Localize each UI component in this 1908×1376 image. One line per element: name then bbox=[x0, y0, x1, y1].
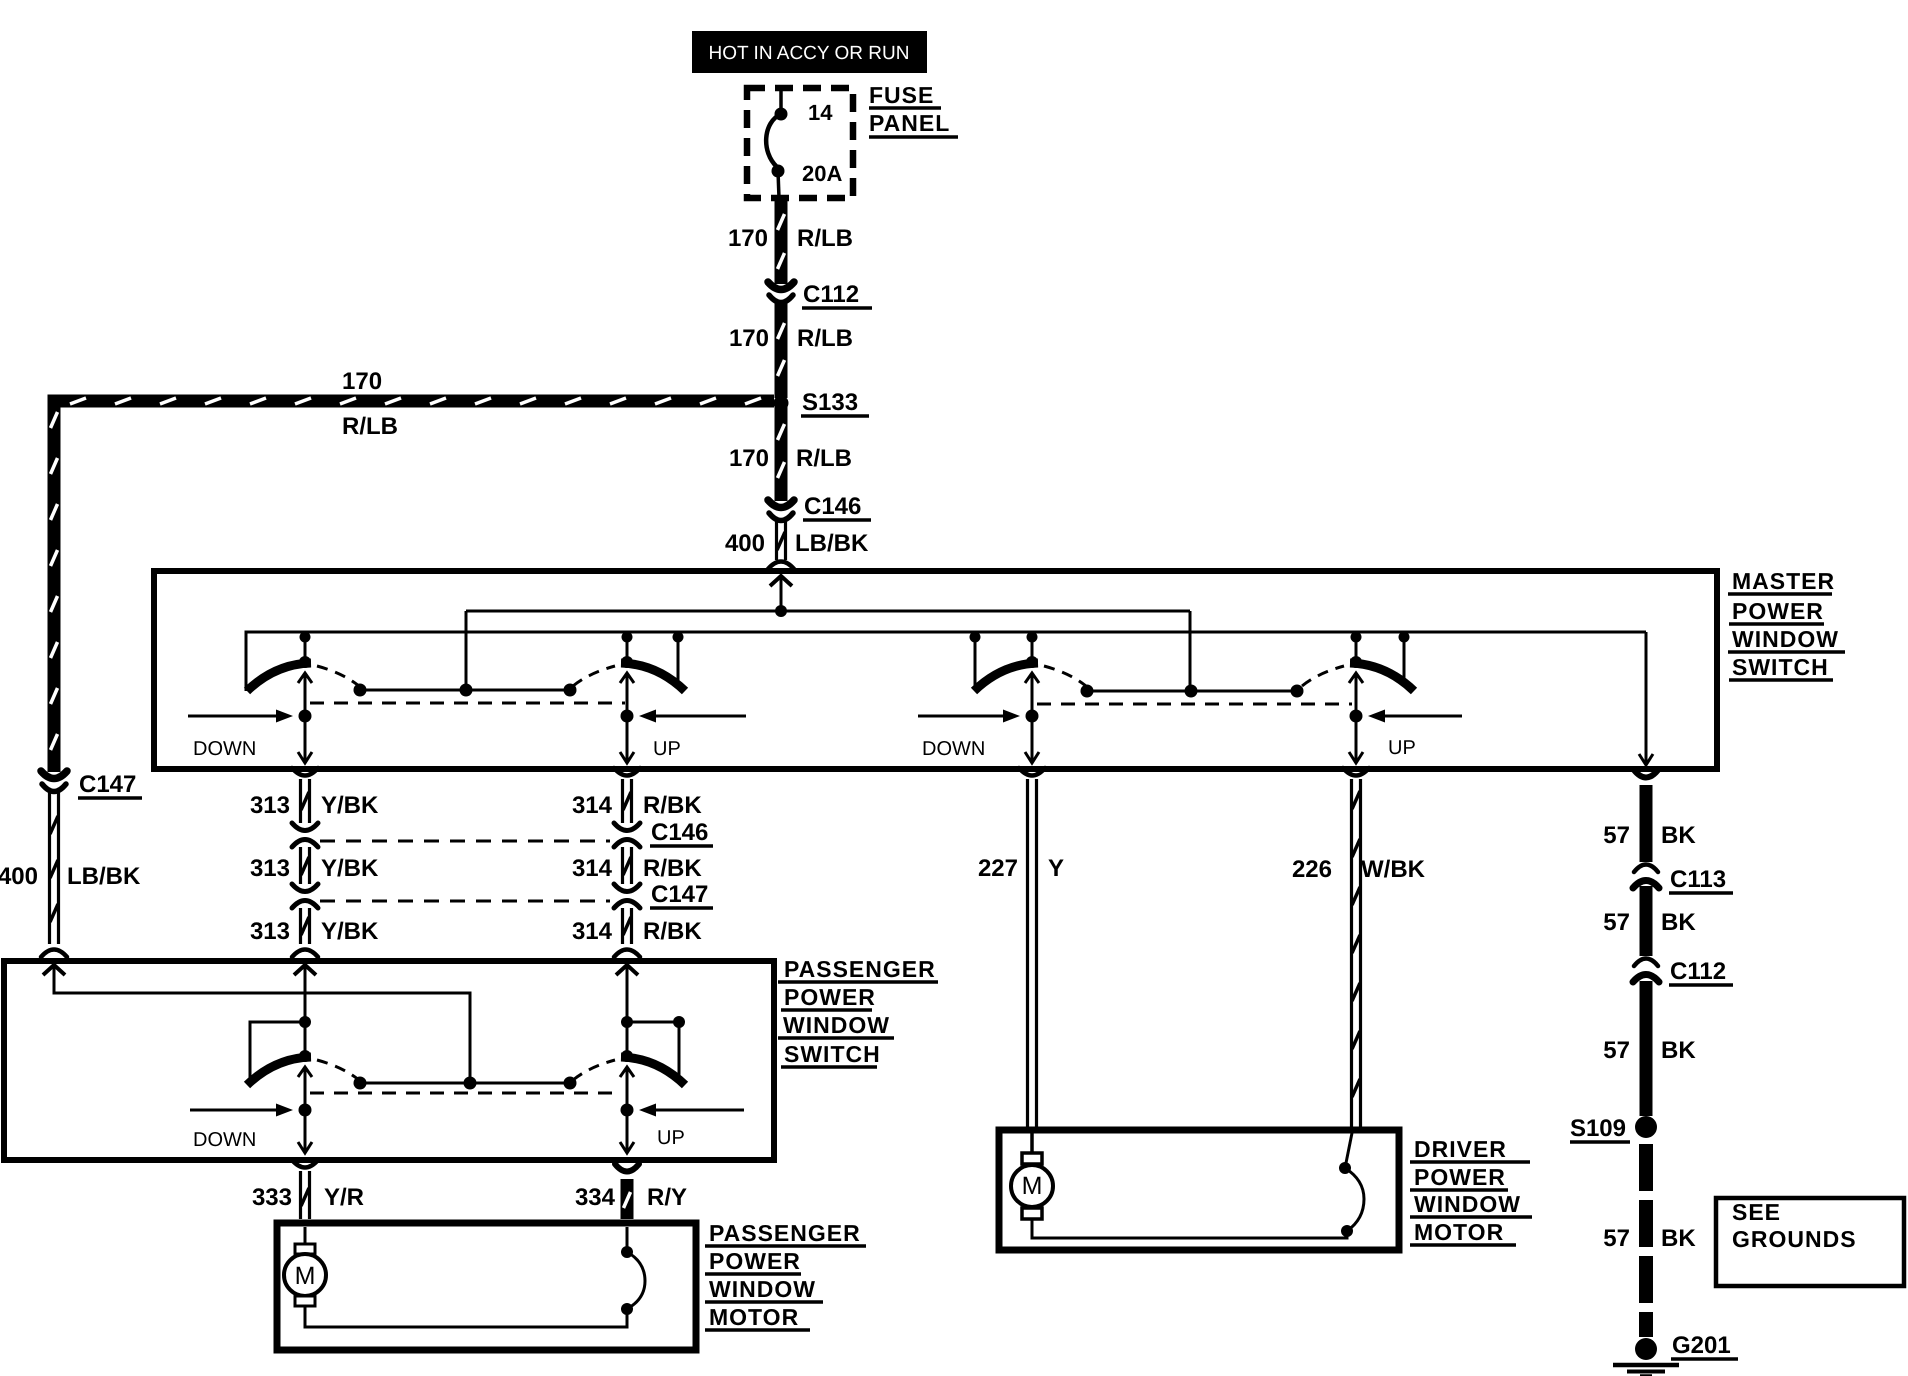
wiper arm arrow (passenger window up) bbox=[620, 673, 634, 723]
wire 57 BK segment 2 bbox=[1640, 886, 1653, 956]
wiper pivot drop (passenger window down) bbox=[300, 632, 311, 663]
wire 170 R/LB (C112 to S133) bbox=[778, 303, 785, 398]
entry arrow wire 314 bbox=[616, 965, 638, 1028]
svg-text:DOWN: DOWN bbox=[193, 738, 256, 760]
svg-text:C146: C146 bbox=[804, 493, 861, 520]
wire label 400 LB/BK bbox=[725, 530, 869, 557]
ground G201 bbox=[1613, 1338, 1679, 1376]
svg-text:57: 57 bbox=[1603, 909, 1630, 936]
splice S109 bbox=[1635, 1116, 1657, 1138]
svg-text:S109: S109 bbox=[1570, 1115, 1626, 1142]
svg-text:313: 313 bbox=[250, 792, 290, 819]
label C147 bbox=[78, 771, 142, 798]
connector bell, wire 314 enters passenger switch bbox=[614, 950, 640, 958]
svg-text:57: 57 bbox=[1603, 822, 1630, 849]
connector C147 on wire 313 bbox=[292, 884, 318, 908]
output arrow (passenger window up) bbox=[620, 716, 634, 763]
bus drop to contact (driver window down) bbox=[970, 632, 981, 688]
passenger power window switch box bbox=[4, 961, 774, 1160]
feed entry arrow into master switch bbox=[770, 576, 792, 611]
svg-text:227: 227 bbox=[978, 855, 1018, 882]
wiper pivot drop (driver window up) bbox=[1351, 632, 1362, 663]
node contact link (passenger switch) bbox=[354, 1077, 577, 1090]
node lower bus (battery bus) bbox=[246, 632, 1646, 691]
ground output of master switch bbox=[1639, 632, 1653, 765]
connector C146 on wire 314 bbox=[614, 823, 640, 847]
svg-text:DOWN: DOWN bbox=[193, 1129, 256, 1151]
svg-text:UP: UP bbox=[653, 738, 681, 760]
label G201 bbox=[1671, 1332, 1738, 1359]
wire 313 Y/BK segment 3 bbox=[301, 908, 310, 944]
svg-text:C147: C147 bbox=[651, 881, 708, 908]
connector C112 (inline, top) bbox=[768, 282, 794, 303]
wire label 170 R/LB bbox=[728, 225, 853, 252]
svg-text:POWER: POWER bbox=[784, 984, 876, 1010]
connector bell, wire 313 enters passenger switch bbox=[292, 950, 318, 958]
wire 170 R/LB (S133 to C146) bbox=[778, 403, 785, 501]
wire label R/LB (horizontal) bbox=[342, 413, 398, 440]
wire 334 R/Y bbox=[624, 1179, 631, 1219]
wiper arm arrow (passenger sw up) bbox=[620, 1067, 634, 1117]
svg-text:20A: 20A bbox=[802, 161, 842, 186]
svg-text:MASTER: MASTER bbox=[1732, 568, 1835, 594]
svg-text:170: 170 bbox=[342, 368, 382, 395]
connector C113 (inline) bbox=[1633, 865, 1659, 889]
mechanical linkage (passenger sw rocker) bbox=[310, 1092, 622, 1095]
wire label 314 R/BK bbox=[572, 918, 702, 945]
svg-text:14: 14 bbox=[808, 100, 833, 125]
wire 57 BK dashed (to grounds) bbox=[1639, 1144, 1653, 1337]
svg-text:FUSE: FUSE bbox=[869, 82, 934, 108]
wire label 170 R/LB bbox=[729, 325, 853, 352]
limit switch (passenger motor) bbox=[621, 1227, 645, 1315]
node contact link (driver pair) bbox=[1081, 685, 1304, 698]
svg-text:G201: G201 bbox=[1672, 1332, 1731, 1359]
motor internal wire to limit switch (driver) bbox=[1032, 1219, 1347, 1238]
svg-text:Y/BK: Y/BK bbox=[321, 918, 379, 945]
wire label 314 R/BK bbox=[572, 792, 702, 819]
wire label 226 W/BK bbox=[1292, 856, 1426, 883]
svg-text:R/BK: R/BK bbox=[643, 918, 702, 945]
label UP bbox=[653, 738, 681, 760]
see grounds note box bbox=[1716, 1198, 1904, 1286]
wire label 313 Y/BK bbox=[250, 792, 379, 819]
wire 313 Y/BK segment 1 bbox=[301, 779, 310, 823]
svg-text:SWITCH: SWITCH bbox=[784, 1041, 881, 1067]
wire 170 R/LB (fuse to C112) bbox=[778, 198, 785, 284]
connector bell, wire 227 leaves master switch bbox=[1019, 768, 1045, 776]
wire 400 LB/BK (C147 to passenger switch) bbox=[50, 792, 59, 944]
actuation arrow passenger window up bbox=[639, 710, 746, 723]
feed entry arrow (400) into passenger switch bbox=[43, 965, 470, 1083]
connector bell, wire 313 leaves master switch bbox=[292, 768, 318, 776]
svg-text:DRIVER: DRIVER bbox=[1414, 1136, 1507, 1162]
connector C112 (inline, right) bbox=[1633, 959, 1659, 983]
wire 333 Y/R bbox=[301, 1171, 310, 1219]
wiper arm arrow (passenger sw down) bbox=[298, 1067, 312, 1117]
fuse pin label 14 bbox=[808, 100, 833, 125]
limit switch (driver motor) bbox=[1339, 1133, 1364, 1237]
svg-text:314: 314 bbox=[572, 792, 613, 819]
wire label 334 R/Y bbox=[575, 1184, 687, 1211]
svg-text:WINDOW: WINDOW bbox=[709, 1276, 816, 1302]
svg-text:MOTOR: MOTOR bbox=[1414, 1219, 1504, 1245]
svg-text:WINDOW: WINDOW bbox=[1414, 1191, 1521, 1217]
svg-text:R/LB: R/LB bbox=[797, 325, 853, 352]
svg-text:314: 314 bbox=[572, 855, 613, 882]
switch wiper (passenger window up) bbox=[573, 656, 685, 691]
svg-text:M: M bbox=[295, 1262, 316, 1290]
actuation arrow passenger sw down bbox=[190, 1104, 293, 1117]
switch wiper (driver window down) bbox=[974, 656, 1086, 691]
wiper pivot drop (passenger window up) bbox=[622, 632, 633, 663]
svg-text:LB/BK: LB/BK bbox=[795, 530, 869, 557]
svg-text:R/BK: R/BK bbox=[643, 855, 702, 882]
svg-text:170: 170 bbox=[729, 325, 769, 352]
label PASSENGER POWER WINDOW SWITCH bbox=[778, 956, 938, 1067]
wire 57 BK segment 1 bbox=[1640, 785, 1653, 862]
wire label 313 Y/BK bbox=[250, 855, 379, 882]
connector C147 (inline, left wire) bbox=[41, 771, 67, 792]
svg-text:314: 314 bbox=[572, 918, 613, 945]
label C147 bbox=[650, 881, 713, 908]
svg-text:BK: BK bbox=[1661, 1225, 1696, 1252]
svg-text:C146: C146 bbox=[651, 819, 708, 846]
wire 400 LB/BK (C146 to master switch) bbox=[777, 521, 786, 560]
svg-text:R/LB: R/LB bbox=[797, 225, 853, 252]
svg-text:MOTOR: MOTOR bbox=[709, 1304, 799, 1330]
label DRIVER POWER WINDOW MOTOR bbox=[1410, 1136, 1532, 1245]
svg-text:SEE: SEE bbox=[1732, 1199, 1781, 1225]
actuation arrow passenger window down bbox=[188, 710, 293, 723]
wire label 170 (horizontal) bbox=[342, 368, 382, 395]
label C112 bbox=[1669, 958, 1733, 985]
svg-text:57: 57 bbox=[1603, 1037, 1630, 1064]
svg-text:334: 334 bbox=[575, 1184, 616, 1211]
wiper pivot drop (driver window down) bbox=[1027, 632, 1038, 663]
svg-text:226: 226 bbox=[1292, 856, 1332, 883]
motor M1 (passenger window motor) bbox=[284, 1227, 326, 1306]
svg-text:BK: BK bbox=[1661, 1037, 1696, 1064]
mechanical linkage (driver rocker) bbox=[1037, 703, 1352, 706]
output arrow (driver window up) bbox=[1349, 716, 1363, 763]
label C113 bbox=[1669, 866, 1733, 893]
svg-text:UP: UP bbox=[657, 1127, 685, 1149]
svg-text:HOT IN ACCY OR RUN: HOT IN ACCY OR RUN bbox=[709, 43, 910, 64]
svg-text:PASSENGER: PASSENGER bbox=[709, 1220, 861, 1246]
connector bell, wire 57 leaves master switch bbox=[1634, 770, 1658, 778]
output arrow (passenger sw down) bbox=[298, 1110, 312, 1153]
mechanical linkage (passenger rocker) bbox=[310, 702, 625, 705]
label MASTER POWER WINDOW SWITCH bbox=[1728, 568, 1845, 680]
svg-text:313: 313 bbox=[250, 855, 290, 882]
wire 314 R/BK segment 1 bbox=[623, 779, 632, 823]
connector C146 on wire 313 bbox=[292, 823, 318, 847]
connector bell, wire 333 leaves passenger switch bbox=[292, 1160, 318, 1168]
wire label 313 Y/BK bbox=[250, 918, 379, 945]
connector C146 (inline, top) bbox=[768, 500, 794, 521]
svg-text:C112: C112 bbox=[1670, 958, 1726, 985]
bus drop to contact (driver window up) bbox=[1399, 632, 1410, 688]
connector C147 dashed tie line bbox=[320, 900, 610, 903]
master power window switch box bbox=[154, 571, 1717, 769]
connector bell, wire 334 leaves passenger switch bbox=[615, 1164, 639, 1172]
switch wiper (passenger sw up) bbox=[573, 1050, 685, 1085]
connector C146 dashed tie line bbox=[320, 840, 610, 843]
svg-text:R/LB: R/LB bbox=[796, 445, 852, 472]
connector bell, wire 400 enters passenger switch bbox=[41, 950, 67, 958]
svg-text:M: M bbox=[1022, 1172, 1043, 1200]
svg-text:333: 333 bbox=[252, 1184, 292, 1211]
passenger power window motor box bbox=[277, 1223, 696, 1350]
label PASSENGER POWER WINDOW MOTOR bbox=[705, 1220, 866, 1330]
svg-text:BK: BK bbox=[1661, 822, 1696, 849]
output arrow (driver window down) bbox=[1025, 716, 1039, 763]
wire label 227 Y bbox=[978, 855, 1064, 882]
svg-text:WINDOW: WINDOW bbox=[783, 1012, 890, 1038]
node contact link (passenger pair) bbox=[354, 684, 577, 697]
output arrow (passenger sw up) bbox=[620, 1110, 634, 1153]
motor M2 (driver window motor) bbox=[1011, 1133, 1053, 1219]
wiper feed loop (passenger sw up) bbox=[621, 1016, 685, 1083]
svg-text:170: 170 bbox=[729, 445, 769, 472]
fuse panel dashed box bbox=[747, 88, 853, 198]
svg-text:C112: C112 bbox=[803, 281, 859, 308]
label UP bbox=[657, 1127, 685, 1149]
svg-text:R/LB: R/LB bbox=[342, 413, 398, 440]
node upper bus (feed bus) bbox=[466, 605, 1190, 690]
svg-text:Y/BK: Y/BK bbox=[321, 792, 379, 819]
output arrow (passenger window down) bbox=[298, 716, 312, 763]
wire label 57 BK bbox=[1603, 822, 1696, 849]
connector C147 on wire 314 bbox=[614, 884, 640, 908]
svg-text:170: 170 bbox=[728, 225, 768, 252]
label FUSE PANEL bbox=[869, 82, 958, 137]
label DOWN bbox=[922, 738, 985, 760]
svg-text:400: 400 bbox=[0, 863, 38, 890]
label S109 bbox=[1570, 1115, 1630, 1142]
svg-text:R/BK: R/BK bbox=[643, 792, 702, 819]
power source label HOT IN ACCY OR RUN bbox=[692, 31, 927, 73]
label UP bbox=[1388, 737, 1416, 759]
svg-text:S133: S133 bbox=[802, 389, 858, 416]
wire 227 Y bbox=[1028, 779, 1037, 1129]
label C146 bbox=[803, 493, 871, 520]
svg-text:LB/BK: LB/BK bbox=[67, 863, 141, 890]
wire 57 BK segment 3 bbox=[1640, 981, 1653, 1116]
connector bell at master switch feed entry bbox=[768, 562, 794, 570]
wire label 400 LB/BK bbox=[0, 863, 141, 890]
connector bell, wire 226 leaves master switch bbox=[1343, 768, 1369, 776]
svg-text:POWER: POWER bbox=[709, 1248, 801, 1274]
label DOWN bbox=[193, 738, 256, 760]
svg-text:W/BK: W/BK bbox=[1361, 856, 1426, 883]
svg-text:C113: C113 bbox=[1670, 866, 1726, 893]
wire 313 Y/BK segment 2 bbox=[301, 847, 310, 884]
svg-text:Y: Y bbox=[1048, 855, 1064, 882]
wire label 333 Y/R bbox=[252, 1184, 364, 1211]
svg-text:C147: C147 bbox=[79, 771, 136, 798]
svg-text:Y/BK: Y/BK bbox=[321, 855, 379, 882]
svg-text:57: 57 bbox=[1603, 1225, 1630, 1252]
wire 314 R/BK segment 2 bbox=[623, 847, 632, 884]
svg-text:UP: UP bbox=[1388, 737, 1416, 759]
svg-text:PASSENGER: PASSENGER bbox=[784, 956, 936, 982]
actuation arrow driver window up bbox=[1368, 710, 1462, 723]
fuse 14 (20A) symbol bbox=[766, 88, 787, 198]
wire label 170 R/LB bbox=[729, 445, 852, 472]
svg-text:WINDOW: WINDOW bbox=[1732, 626, 1839, 652]
svg-text:POWER: POWER bbox=[1732, 598, 1824, 624]
svg-text:SWITCH: SWITCH bbox=[1732, 654, 1829, 680]
actuation arrow passenger sw up bbox=[639, 1104, 744, 1117]
actuation arrow driver window down bbox=[918, 710, 1020, 723]
wiper feed loop (passenger sw down) bbox=[250, 1016, 311, 1083]
wiper arm arrow (driver window down) bbox=[1025, 673, 1039, 723]
svg-text:400: 400 bbox=[725, 530, 765, 557]
wiper arm arrow (driver window up) bbox=[1349, 673, 1363, 723]
svg-text:PANEL: PANEL bbox=[869, 110, 950, 136]
splice S133 bbox=[774, 396, 789, 411]
wire 170 R/LB (S133 to left, down to C147) bbox=[51, 398, 775, 772]
wire label 57 BK bbox=[1603, 1037, 1696, 1064]
label C112 bbox=[802, 281, 872, 308]
wire 226 W/BK bbox=[1352, 779, 1361, 1129]
motor internal wire to limit switch bbox=[305, 1306, 627, 1327]
wiper arm arrow (passenger window down) bbox=[298, 673, 312, 723]
switch wiper (passenger window down) bbox=[247, 656, 359, 691]
svg-text:Y/R: Y/R bbox=[324, 1184, 364, 1211]
bus drop to contact (passenger window up) bbox=[673, 632, 684, 688]
connector bell, wire 314 leaves master switch bbox=[614, 768, 640, 776]
wire label 57 BK bbox=[1603, 1225, 1696, 1252]
wire label 57 BK bbox=[1603, 909, 1696, 936]
wire label 314 R/BK bbox=[572, 855, 702, 882]
label DOWN bbox=[193, 1129, 256, 1151]
switch wiper (passenger sw down) bbox=[247, 1050, 359, 1085]
svg-text:BK: BK bbox=[1661, 909, 1696, 936]
entry arrow wire 313 bbox=[294, 965, 316, 1028]
switch wiper (driver window up) bbox=[1302, 656, 1414, 691]
label S133 bbox=[801, 389, 869, 416]
wire 314 R/BK segment 3 bbox=[623, 908, 632, 944]
svg-text:GROUNDS: GROUNDS bbox=[1732, 1226, 1857, 1252]
driver power window motor box bbox=[999, 1130, 1399, 1250]
svg-text:DOWN: DOWN bbox=[922, 738, 985, 760]
svg-text:313: 313 bbox=[250, 918, 290, 945]
fuse value label 20A bbox=[802, 161, 842, 186]
svg-text:R/Y: R/Y bbox=[647, 1184, 687, 1211]
svg-text:POWER: POWER bbox=[1414, 1164, 1506, 1190]
label C146 bbox=[650, 819, 713, 846]
